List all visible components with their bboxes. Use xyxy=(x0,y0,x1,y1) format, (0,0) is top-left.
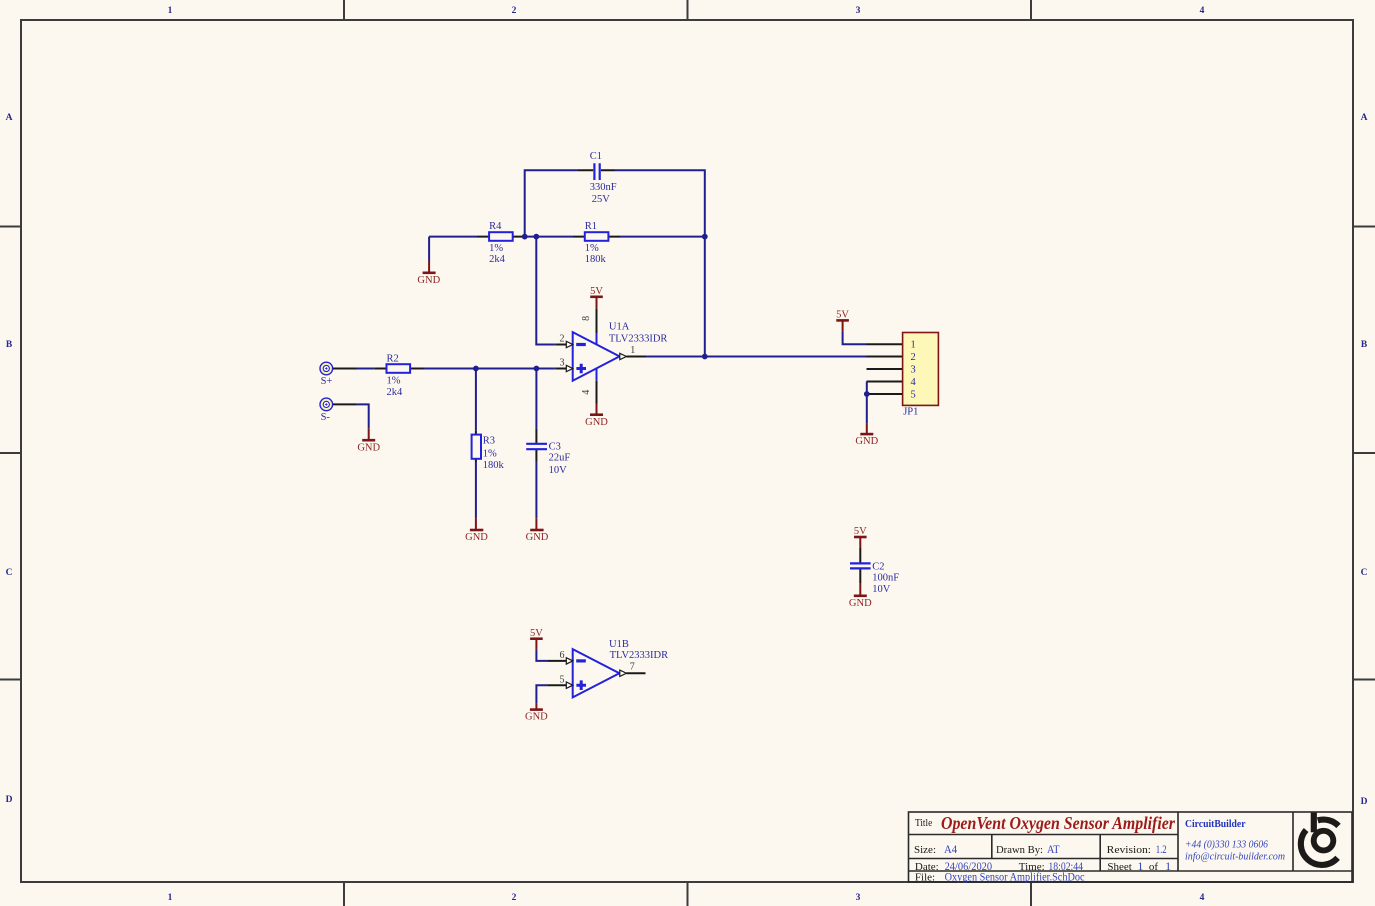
svg-text:5: 5 xyxy=(560,675,565,686)
wire C3 drop xyxy=(535,369,537,429)
ground (JP1) xyxy=(855,423,878,447)
capacitor C2 xyxy=(850,548,899,595)
svg-text:1.2: 1.2 xyxy=(1156,842,1167,856)
svg-text:22uF: 22uF xyxy=(549,453,571,464)
ground (U1B pin 5 feed) xyxy=(525,703,548,723)
svg-text:CircuitBuilder: CircuitBuilder xyxy=(1185,818,1246,830)
svg-text:S+: S+ xyxy=(321,376,333,387)
svg-text:2: 2 xyxy=(512,893,517,903)
capacitor C1 xyxy=(578,151,617,205)
svg-text:1%: 1% xyxy=(585,243,599,254)
junction (R1/C1 right) xyxy=(702,234,708,240)
svg-text:5V: 5V xyxy=(836,310,849,321)
svg-text:180k: 180k xyxy=(483,460,505,471)
svg-text:GND: GND xyxy=(526,532,549,543)
svg-text:+44 (0)330 133 0606: +44 (0)330 133 0606 xyxy=(1185,839,1268,851)
svg-text:1: 1 xyxy=(1165,859,1171,873)
wire C1 right to output node xyxy=(615,170,705,356)
svg-text:C1: C1 xyxy=(590,151,602,162)
wire S- to ground xyxy=(333,403,357,405)
ground (R3) xyxy=(465,518,488,543)
svg-text:10V: 10V xyxy=(872,584,891,595)
svg-text:U1A: U1A xyxy=(609,321,630,332)
ground (S-) xyxy=(357,428,380,453)
svg-text:1: 1 xyxy=(1137,859,1143,873)
svg-text:D: D xyxy=(6,795,13,805)
svg-text:R3: R3 xyxy=(483,435,495,446)
capacitor C3 xyxy=(526,429,570,476)
svg-text:B: B xyxy=(6,340,13,350)
svg-text:3: 3 xyxy=(856,6,861,16)
svg-text:GND: GND xyxy=(357,442,380,453)
svg-text:R1: R1 xyxy=(585,221,597,232)
power 5V (JP1 pin 1) xyxy=(836,310,849,332)
ground (C3) xyxy=(526,518,549,543)
svg-text:5V: 5V xyxy=(590,286,603,297)
svg-text:1: 1 xyxy=(630,345,635,356)
svg-text:GND: GND xyxy=(465,532,488,543)
svg-text:5: 5 xyxy=(911,390,916,401)
op-amp U1B xyxy=(548,639,668,697)
svg-text:1: 1 xyxy=(911,340,916,351)
wire JP1 pins 4-5 to ground xyxy=(866,382,868,424)
svg-text:4: 4 xyxy=(1200,6,1205,16)
connector JP1 xyxy=(867,333,939,418)
wire R3 drop xyxy=(475,369,477,431)
svg-text:5V: 5V xyxy=(854,526,867,537)
svg-text:JP1: JP1 xyxy=(903,406,918,417)
svg-text:2: 2 xyxy=(911,352,916,363)
svg-text:Size:: Size: xyxy=(914,844,936,856)
ground (C2) xyxy=(849,583,872,609)
svg-text:2k4: 2k4 xyxy=(489,254,506,265)
wire R3 to ground xyxy=(475,462,477,518)
svg-text:info@circuit-builder.com: info@circuit-builder.com xyxy=(1185,851,1285,863)
svg-text:C: C xyxy=(1361,568,1368,578)
svg-text:GND: GND xyxy=(849,598,872,609)
svg-text:GND: GND xyxy=(855,436,878,447)
wire S+ to R2 xyxy=(333,368,357,370)
svg-text:A4: A4 xyxy=(944,842,957,856)
svg-text:OpenVent Oxygen Sensor Amplifi: OpenVent Oxygen Sensor Amplifier xyxy=(941,813,1176,833)
ground (U1A pin 4) xyxy=(585,404,608,428)
svg-text:C: C xyxy=(6,568,13,578)
junction (R3 tap) xyxy=(473,366,479,372)
junction (C3 tap) xyxy=(534,366,540,372)
svg-text:10V: 10V xyxy=(549,465,568,476)
wire C1 feedback left vertical xyxy=(525,170,578,236)
wire 5V to JP1 pin 1 xyxy=(843,331,867,344)
wire 5V to U1B pin 6 xyxy=(536,649,548,661)
svg-text:Oxygen Sensor Amplifier.SchDoc: Oxygen Sensor Amplifier.SchDoc xyxy=(945,870,1085,884)
wire C3 to ground xyxy=(535,461,537,518)
svg-text:GND: GND xyxy=(585,417,608,428)
resistor R1 xyxy=(573,221,620,265)
svg-text:U1B: U1B xyxy=(609,639,629,650)
svg-text:5V: 5V xyxy=(530,628,543,639)
svg-text:of: of xyxy=(1149,861,1159,873)
svg-text:6: 6 xyxy=(560,650,565,661)
svg-text:4: 4 xyxy=(1200,893,1205,903)
svg-text:100nF: 100nF xyxy=(872,572,899,583)
svg-text:GND: GND xyxy=(525,712,548,723)
svg-text:4: 4 xyxy=(581,390,592,395)
svg-text:R2: R2 xyxy=(387,353,399,364)
svg-text:180k: 180k xyxy=(585,254,607,265)
svg-text:330nF: 330nF xyxy=(590,182,617,193)
svg-text:3: 3 xyxy=(911,365,916,376)
ground (R4) xyxy=(417,237,440,286)
op-amp U1A xyxy=(556,308,668,403)
svg-text:8: 8 xyxy=(581,316,592,321)
svg-text:TLV2333IDR: TLV2333IDR xyxy=(610,650,669,661)
wire ground to U1B pin 5 xyxy=(536,685,548,703)
connector pad S+ xyxy=(320,362,333,387)
svg-text:C3: C3 xyxy=(549,441,561,452)
junction (R4/C1) xyxy=(522,234,528,240)
wire input net xyxy=(424,368,556,370)
svg-text:1%: 1% xyxy=(489,243,503,254)
svg-text:2: 2 xyxy=(560,334,565,345)
svg-text:3: 3 xyxy=(560,357,565,368)
svg-text:TLV2333IDR: TLV2333IDR xyxy=(609,334,668,345)
svg-text:D: D xyxy=(1361,797,1368,807)
svg-text:Sheet: Sheet xyxy=(1107,861,1131,873)
svg-text:25V: 25V xyxy=(592,194,611,205)
svg-text:2k4: 2k4 xyxy=(387,387,404,398)
wire R4 row xyxy=(429,236,705,238)
power 5V (U1B pin 6 feed) xyxy=(530,628,543,650)
svg-text:1: 1 xyxy=(168,893,173,903)
junction (R1/pin2 feed) xyxy=(533,234,539,240)
svg-text:B: B xyxy=(1361,340,1368,350)
svg-text:1%: 1% xyxy=(483,449,497,460)
svg-text:Drawn By:: Drawn By: xyxy=(996,844,1043,856)
svg-text:1%: 1% xyxy=(387,376,401,387)
svg-text:R4: R4 xyxy=(489,221,502,232)
svg-text:2: 2 xyxy=(512,6,517,16)
power 5V (C2) xyxy=(854,526,867,548)
power 5V (U1A pin 8) xyxy=(590,286,603,309)
junction (JP1 gnd) xyxy=(864,391,870,397)
svg-text:3: 3 xyxy=(856,893,861,903)
svg-text:A: A xyxy=(1361,113,1368,123)
svg-text:Revision:: Revision: xyxy=(1107,844,1151,856)
connector pad S- xyxy=(320,398,333,423)
svg-text:GND: GND xyxy=(417,275,440,286)
wire output net xyxy=(646,356,867,358)
svg-text:7: 7 xyxy=(630,661,635,672)
svg-text:C2: C2 xyxy=(872,561,884,572)
svg-text:1: 1 xyxy=(168,6,173,16)
resistor R3 xyxy=(472,430,505,471)
junction (output/feedback) xyxy=(702,354,708,360)
svg-text:4: 4 xyxy=(911,377,917,388)
svg-text:S-: S- xyxy=(321,412,331,423)
svg-text:AT: AT xyxy=(1047,842,1060,856)
wire inverting input feed xyxy=(536,237,555,345)
resistor R2 xyxy=(374,353,424,398)
svg-text:File:: File: xyxy=(915,872,935,884)
resistor R4 xyxy=(477,221,525,265)
svg-text:A: A xyxy=(6,113,13,123)
svg-text:Title: Title xyxy=(915,817,932,829)
